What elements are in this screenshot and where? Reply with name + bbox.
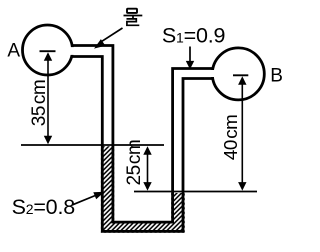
surface line A xyxy=(40,50,56,52)
vessel inner wall xyxy=(72,46,215,223)
tank A xyxy=(23,25,73,75)
junction gap A xyxy=(63,47,77,55)
datum line left xyxy=(21,144,164,146)
svg-text:A: A xyxy=(7,40,20,61)
junction gap B xyxy=(207,70,219,77)
dim 40cm arrow xyxy=(238,76,246,190)
rieul xyxy=(127,19,140,25)
surface line B xyxy=(233,74,248,76)
dim 25cm arrow xyxy=(143,146,151,190)
hatched fluid walls (S2 region) xyxy=(101,146,185,233)
u vowel stem xyxy=(132,16,134,19)
svg-text:25cm: 25cm xyxy=(124,140,145,186)
tank B xyxy=(212,48,264,100)
datum line right xyxy=(134,191,257,193)
label mul (water) glyph xyxy=(124,9,143,26)
svg-text:35cm: 35cm xyxy=(29,80,50,126)
svg-text:40cm: 40cm xyxy=(220,115,241,160)
svg-text:S2=0.8: S2=0.8 xyxy=(12,195,76,219)
dim 35cm arrow xyxy=(44,52,52,144)
S1 arrow xyxy=(186,47,194,70)
u vowel bar xyxy=(124,15,143,17)
S2 arrow xyxy=(73,192,105,205)
svg-text:B: B xyxy=(270,65,283,86)
svg-text:S1=0.9: S1=0.9 xyxy=(162,23,225,47)
mul arrow xyxy=(94,28,123,49)
mieum box xyxy=(127,9,137,13)
vessel outer wall xyxy=(72,57,215,232)
